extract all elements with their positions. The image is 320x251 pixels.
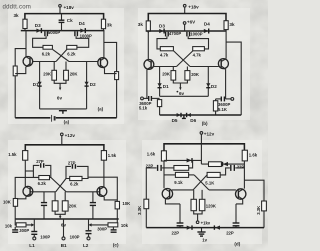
svg-text:D1: D1 (33, 82, 39, 87)
svg-text:B1: B1 (61, 243, 67, 248)
wire bottom rail (b) (160, 114, 242, 116)
wire row3 left end (d) (189, 174, 195, 176)
wire 120K tops (d) (194, 190, 202, 199)
diode bottom right (d) (214, 225, 220, 229)
wire bottom rail (d) (146, 227, 264, 229)
resistor 4.7k left (b) (160, 47, 173, 58)
svg-text:3k: 3k (107, 23, 113, 28)
capacitor 27P left (c) (36, 159, 44, 168)
svg-text:20K: 20K (43, 72, 52, 77)
transistor Q1 (c) (23, 186, 33, 197)
wire second rail (b) (148, 30, 226, 33)
diode D1 (a) (33, 62, 42, 109)
svg-text:10K: 10K (3, 200, 12, 205)
wire inner bottom rail (a) (40, 108, 87, 110)
wire emitter right (a) (105, 68, 117, 73)
diode D2 (b) (206, 67, 217, 97)
svg-text:20K: 20K (162, 72, 171, 77)
resistor 10K left (c) (3, 199, 18, 207)
diode row1 right (d) (223, 162, 229, 167)
svg-text:D2: D2 (211, 84, 217, 89)
transistor Q2 (d) (236, 189, 246, 200)
wire base left (a) (33, 61, 56, 63)
wire base left (c) (30, 191, 56, 193)
transistor Q2 (c) (97, 187, 107, 198)
svg-text:L2: L2 (83, 243, 89, 248)
svg-text:1.6k: 1.6k (249, 153, 258, 158)
diode row1 left (d) (187, 158, 192, 163)
diode D4 (b) (204, 21, 210, 33)
svg-text:5.1K: 5.1K (205, 181, 215, 186)
wire output right (b) (216, 98, 221, 100)
wire collector right (b) (225, 31, 227, 59)
wire bottom rail (c) (15, 218, 119, 220)
svg-text:+6V: +6V (187, 20, 196, 25)
diode D6 (b) (187, 113, 197, 123)
diode D4 (a) (79, 21, 86, 33)
wire row2 mid (d) (162, 167, 174, 169)
capacitor 3600P left (b) (139, 96, 151, 106)
resistor 3.3K left rail (d) (137, 199, 149, 215)
capacitor 22P bottom right (d) (226, 204, 239, 235)
resistor 10k horiz right (c) (108, 223, 129, 228)
capacitor C1 5000P (a) (45, 30, 60, 36)
wire left rail (c) (15, 177, 33, 219)
wire 4700P hook (b) (157, 36, 167, 49)
wire 20K bus and 6v arrow (b) (173, 80, 187, 96)
svg-text:100P: 100P (40, 234, 50, 239)
wire 5.1k left to rail (b) (159, 107, 161, 115)
svg-text:dddtt.com: dddtt.com (3, 3, 32, 10)
wire 5.1K to 22P right (d) (220, 168, 230, 175)
wire base left (d) (172, 189, 193, 191)
diode bottom left (d) (187, 225, 192, 229)
svg-text:1000P: 1000P (190, 32, 202, 37)
wire 20K bus and 6v arrow (c) (55, 211, 66, 227)
ground tap (a) (59, 111, 67, 114)
svg-text:300P: 300P (97, 226, 107, 231)
svg-text:3k: 3k (138, 22, 144, 27)
resistor 6.2k right (c) (70, 176, 82, 186)
wire loop left (c) (33, 165, 50, 177)
wire top rail (c) (25, 145, 104, 151)
svg-text:22P: 22P (226, 230, 234, 235)
resistor 9.1k (d) (174, 172, 188, 184)
svg-text:D5: D5 (172, 118, 178, 123)
resistor 20K left (b) (162, 71, 176, 81)
capacitor 1000P (b) (187, 32, 203, 37)
resistor 10k horiz left (c) (5, 223, 26, 229)
wire row2 up (d) (189, 160, 193, 168)
capacitor 300P left (c) (12, 227, 29, 233)
capacitor line left (c) (41, 192, 47, 219)
wire top rail (b) (148, 14, 226, 21)
terminal +1kv (d) (196, 214, 211, 226)
resistor 20K right (b) (185, 71, 200, 81)
resistor 5.1k left (b) (139, 100, 162, 111)
svg-text:4.7k: 4.7k (193, 52, 202, 57)
diode D3 (b) (159, 23, 165, 33)
wire emitter left (b) (146, 70, 148, 99)
wire emitter left (a) (15, 67, 26, 74)
svg-text:D4: D4 (204, 21, 210, 26)
wire 20K tops (c) (55, 192, 65, 201)
wire 5.1K right stubs (b) (215, 99, 217, 115)
wire 20K tops (b) (173, 67, 187, 71)
output terminal right (b) (226, 98, 234, 101)
resistor 20K b (c) (62, 201, 77, 211)
capacitor 3600P right (b) (218, 97, 230, 108)
resistor 10K right (c) (115, 201, 131, 209)
transistor Q1 (d) (162, 189, 172, 200)
wire bottom rail (a) (15, 117, 116, 119)
wire row1 right (d) (201, 163, 244, 165)
wire 10k branch right (c) (90, 219, 117, 225)
wire collector left (d) (163, 161, 165, 188)
wire C2 hook (a) (76, 36, 89, 47)
diode arrow left (c) (31, 223, 34, 226)
ground stem (b) (182, 115, 186, 118)
supply terminal +12v (c) (61, 133, 76, 145)
resistor left rail (a) (13, 66, 17, 76)
wire row2 left (d) (146, 167, 156, 169)
wire 20K tops (a) (54, 62, 66, 71)
wire top rail (a) (25, 14, 104, 20)
svg-text:D6: D6 (190, 118, 196, 123)
wire emitter left (c) (15, 197, 26, 199)
resistor 1.6k right (d) (242, 150, 258, 161)
wire loop right (c) (66, 166, 88, 178)
svg-text:100P: 100P (70, 234, 80, 239)
svg-text:10k: 10k (121, 223, 129, 228)
terminal L1 (c) (29, 237, 36, 248)
svg-text:3.3K: 3.3K (137, 205, 142, 215)
wire left rail (d) (145, 168, 147, 228)
svg-text:D2: D2 (90, 82, 96, 87)
wire top rail (d) (164, 144, 244, 151)
svg-text:3k: 3k (229, 22, 235, 27)
svg-text:1000P: 1000P (80, 33, 92, 38)
wire right rail (b) (226, 42, 241, 115)
wire 10k branch left (c) (15, 219, 32, 225)
wire supply drop (d) (200, 144, 202, 164)
capacitor 22P right (d) (231, 165, 245, 171)
resistor 3k left (b) (138, 21, 151, 31)
wire loop link left (c) (25, 170, 33, 172)
resistor 3k right (a) (101, 19, 112, 29)
wire 20K bus and 6v arrow (a) (54, 80, 66, 101)
svg-text:27P: 27P (36, 159, 44, 164)
resistor 120K a (d) (191, 199, 196, 210)
diode arrow right (c) (89, 223, 92, 226)
capacitor Ck (a) (59, 14, 74, 31)
resistor 3k right (b) (224, 21, 235, 30)
svg-text:5.1K: 5.1K (218, 107, 228, 112)
resistor 20K left (a) (43, 70, 56, 80)
svg-text:300P: 300P (19, 228, 29, 233)
svg-text:+18v: +18v (188, 5, 199, 10)
capacitor 27P right (c) (68, 160, 76, 168)
capacitor 100P right line (c) (70, 219, 92, 239)
wire second rail (a) (25, 29, 104, 31)
terminal +6V (b) (183, 20, 196, 31)
wire row1 left (d) (164, 159, 201, 161)
wire emitter right (b) (225, 69, 227, 99)
transistor Q2 (a) (98, 58, 108, 69)
ground symbol (d) (197, 228, 207, 243)
svg-text:4.7k: 4.7k (160, 52, 169, 57)
wire left rail (a) (15, 49, 26, 118)
svg-text:20K: 20K (191, 72, 200, 77)
terminal L2 (c) (83, 237, 90, 248)
wire 22P right to collector (d) (235, 167, 244, 169)
wire right rail (a) (104, 42, 117, 117)
diode D3 (a) (35, 23, 42, 33)
diode D1 (b) (158, 67, 170, 97)
svg-text:4700P: 4700P (169, 31, 181, 36)
svg-text:6v: 6v (57, 96, 63, 101)
supply terminal +18v (b) (183, 4, 199, 13)
svg-text:1.6k: 1.6k (147, 151, 156, 156)
wire collector left (c) (24, 160, 26, 187)
svg-text:(a): (a) (98, 107, 104, 112)
wire collector left (b) (147, 31, 149, 60)
transistor Q2 (b) (218, 59, 228, 70)
wire base right (d) (209, 189, 236, 191)
svg-text:20K: 20K (69, 203, 78, 208)
resistor 6.2k right (a) (67, 45, 77, 56)
svg-text:3.3K: 3.3K (256, 205, 261, 215)
battery (a) (52, 115, 55, 122)
svg-text:5000P: 5000P (48, 30, 60, 35)
capacitor 300P right (c) (97, 226, 116, 232)
transistor Q1 (b) (144, 60, 154, 71)
resistor 6.2k left (c) (38, 176, 50, 186)
svg-text:D3: D3 (159, 23, 165, 28)
svg-text:22P: 22P (237, 165, 245, 170)
capacitor 22P bottom left (d) (172, 204, 184, 235)
output terminal left (b) (141, 97, 149, 100)
wire 120K bus (d) (194, 211, 202, 214)
diode D2 (a) (85, 62, 97, 109)
wire collector right (d) (243, 161, 245, 189)
resistor 1.5k left (c) (8, 151, 28, 161)
resistor 6.2k left (a) (42, 45, 53, 56)
resistor 3.3K right rail (d) (256, 201, 266, 215)
wire emitter left (d) (165, 199, 180, 204)
supply terminal +18v (a) (59, 5, 75, 14)
resistor row1 right (d) (209, 162, 222, 167)
resistor row2 (d) (174, 166, 189, 171)
svg-text:6.2k: 6.2k (70, 182, 79, 187)
diode D5 (b) (172, 113, 181, 123)
wire collector right (c) (103, 160, 105, 187)
resistor 120K b (d) (199, 199, 216, 210)
wire base right (c) (66, 191, 100, 193)
resistor 3k left (a) (14, 13, 28, 29)
supply terminal +12v (d) (200, 131, 214, 143)
svg-text:D1: D1 (163, 84, 169, 89)
svg-text:(c): (c) (113, 242, 119, 247)
resistor 4.7k right (b) (193, 47, 205, 58)
wire 1000P hook (b) (188, 36, 208, 49)
svg-text:6v: 6v (179, 91, 185, 96)
svg-text:9.1k: 9.1k (174, 180, 183, 185)
wire collector left (a) (25, 31, 27, 57)
wire emitter right (c) (104, 197, 117, 200)
wire cross X (d) (193, 175, 209, 190)
capacitor C2 1000P (a) (75, 31, 92, 38)
capacitor line right (c) (90, 192, 96, 219)
svg-text:6.2k: 6.2k (38, 181, 47, 186)
wire cross X (c) (51, 177, 66, 191)
wire emitter right (d) (236, 199, 243, 204)
svg-text:6.2k: 6.2k (42, 51, 51, 56)
svg-text:(b): (b) (202, 121, 208, 126)
transistor Q1 (a) (23, 57, 33, 68)
svg-text:+12v: +12v (65, 133, 76, 138)
resistor right rail (a) (115, 72, 119, 80)
wire base right (b) (190, 66, 219, 68)
capacitor 22P left (d) (146, 164, 162, 171)
svg-text:D4: D4 (79, 21, 85, 26)
resistor 5.1K right (b) (213, 101, 228, 113)
svg-text:D3: D3 (35, 23, 41, 28)
svg-text:(a): (a) (64, 120, 70, 125)
svg-text:6.2k: 6.2k (67, 51, 76, 56)
resistor 20K right (a) (64, 70, 79, 80)
wire base left (b) (154, 66, 177, 68)
wire collector right (a) (103, 31, 105, 58)
svg-text:L1: L1 (29, 243, 35, 248)
wire cross X (a) (53, 49, 69, 61)
resistor 1.5k right (c) (101, 151, 116, 161)
svg-text:22P: 22P (172, 230, 180, 235)
svg-text:+12v: +12v (204, 131, 215, 136)
svg-text:22P: 22P (146, 164, 154, 169)
capacitor 4700P (b) (166, 31, 182, 36)
svg-text:27P: 27P (68, 160, 76, 165)
svg-text:+1kv: +1kv (201, 221, 211, 226)
svg-text:20K: 20K (70, 72, 79, 77)
wire base right (a) (69, 61, 98, 63)
wire C1 hook (a) (33, 36, 47, 47)
wire inner bottom rail (b) (160, 95, 209, 97)
svg-text:10k: 10k (5, 224, 13, 229)
resistor 20K a (c) (52, 201, 58, 211)
wire row3 left (d) (164, 174, 175, 176)
resistor 1.6k left (d) (147, 151, 167, 161)
wire right rail (d) (244, 180, 264, 227)
wire right rail (c) (88, 177, 117, 219)
svg-text:1v: 1v (202, 237, 207, 242)
svg-text:+18v: +18v (64, 5, 75, 10)
svg-text:3k: 3k (14, 13, 20, 18)
svg-text:10K: 10K (122, 201, 131, 206)
svg-text:Ck: Ck (67, 18, 73, 23)
capacitor 100P left line (c) (31, 219, 50, 239)
wire cross X (b) (174, 51, 193, 67)
svg-text:120K: 120K (206, 204, 217, 209)
svg-text:1.5k: 1.5k (8, 152, 17, 157)
svg-text:(d): (d) (234, 242, 240, 247)
resistor 5.1K (d) (205, 172, 220, 185)
terminal B1 stem (c) (61, 219, 67, 248)
wire output left (b) (152, 97, 160, 99)
svg-text:1.5k: 1.5k (108, 153, 117, 158)
svg-text:5.1k: 5.1k (139, 105, 148, 110)
